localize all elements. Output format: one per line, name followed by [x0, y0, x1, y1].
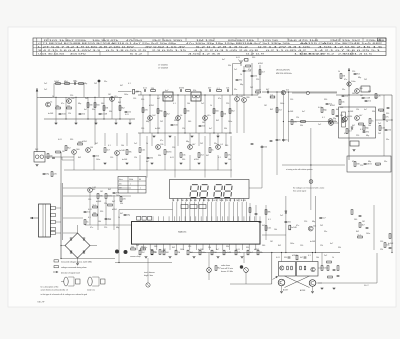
svg-text:10k: 10k [386, 245, 389, 247]
svg-text:220: 220 [356, 135, 359, 137]
capacitor C31 [363, 130, 366, 132]
thermal fuse [350, 141, 359, 146]
svg-text:150: 150 [88, 199, 91, 201]
resistor R46 [93, 214, 98, 216]
segment resistor pack 1 [181, 205, 188, 209]
svg-text:68p: 68p [368, 161, 371, 163]
svg-text:47u: 47u [160, 140, 163, 142]
resistor R53 [321, 266, 323, 271]
svg-text:560: 560 [354, 219, 357, 221]
wire drop to bus2 [93, 155, 95, 170]
svg-text:12k: 12k [356, 109, 359, 111]
svg-text:Vers: Vers [119, 179, 123, 181]
svg-text:100n: 100n [290, 243, 294, 245]
junction [75, 97, 76, 98]
svg-text:2k2: 2k2 [320, 225, 323, 227]
svg-text:220: 220 [226, 103, 229, 105]
svg-text:LW 146-290 kHz: LW 146-290 kHz [276, 70, 290, 72]
svg-text:220: 220 [304, 221, 307, 223]
svg-text:6.2 0.1 2.8 1.3 5.2: 6.2 0.1 2.8 1.3 5.2 [196, 47, 248, 49]
svg-text:39k: 39k [120, 203, 123, 205]
resistor R29 [369, 119, 371, 124]
ground mid [198, 162, 201, 164]
svg-text:33n: 33n [174, 120, 177, 122]
svg-text:bc548: bc548 [291, 227, 297, 229]
wire vm2 [243, 66, 245, 96]
svg-text:1M: 1M [177, 252, 180, 254]
svg-text:8k2: 8k2 [278, 245, 281, 247]
svg-text:0.1: 0.1 [128, 83, 131, 85]
svg-text:33n: 33n [144, 247, 147, 249]
svg-text:60: 60 [139, 179, 141, 181]
svg-text:voltages measured during alarm: voltages measured during alarm [61, 266, 87, 269]
junction [55, 97, 56, 98]
segment resistor pack 3 [199, 205, 206, 209]
transistor Q29 [347, 82, 351, 86]
svg-text:8k2: 8k2 [108, 189, 111, 191]
power box outline [339, 107, 376, 138]
svg-text:1M: 1M [270, 241, 273, 243]
svg-text:220: 220 [104, 227, 107, 229]
ground rod [36, 164, 39, 166]
svg-text:4k7: 4k7 [336, 109, 339, 111]
resistor RU11 [257, 250, 259, 255]
svg-text:39k: 39k [300, 125, 303, 127]
ground [153, 135, 156, 137]
svg-text:8k2: 8k2 [118, 102, 121, 104]
svg-text:4k7: 4k7 [157, 98, 160, 100]
resistor R67 [359, 123, 364, 125]
svg-text:direction of signal travel: direction of signal travel [61, 271, 80, 274]
svg-text:150: 150 [300, 245, 303, 247]
wire vm0 [232, 64, 234, 96]
resistor R13 [142, 108, 144, 113]
svg-text:33n: 33n [234, 89, 237, 91]
capacitor C27 [389, 246, 392, 248]
resistor RU4 [175, 250, 177, 255]
svg-text:4u7: 4u7 [84, 109, 87, 111]
svg-text:1 2 3 4 5 6 7 8 9 10 11 12 13: 1 2 3 4 5 6 7 8 9 10 11 12 13 14 [172, 200, 247, 202]
svg-text:330: 330 [386, 113, 389, 115]
right filter box [347, 156, 391, 172]
wire IF vertical [195, 95, 197, 133]
wire bottom bus left [230, 283, 272, 285]
svg-text:0.01: 0.01 [236, 249, 240, 251]
svg-text:1k: 1k [210, 105, 212, 107]
table row line [33, 40, 386, 42]
svg-text:6 1.2: 6 1.2 [130, 54, 142, 56]
wire mains vertical [348, 68, 350, 160]
capacitor C6 [179, 89, 181, 92]
wire mid vertical [151, 133, 153, 146]
junction [229, 132, 230, 133]
svg-text:/05: /05 [119, 183, 122, 185]
dial lamp LA1 [207, 268, 212, 273]
svg-text:120 56: 120 56 [262, 40, 278, 42]
svg-text:330: 330 [324, 99, 327, 101]
svg-text:bf194: bf194 [112, 209, 117, 211]
ground [75, 122, 78, 124]
svg-text:free aerial signal: free aerial signal [293, 191, 307, 193]
wire rm h1 [265, 205, 267, 240]
wire vertical drop [55, 97, 57, 119]
svg-text:the voltages are measured with: the voltages are measured with a noise [293, 187, 324, 190]
IF transformer T3 [191, 92, 201, 101]
svg-text:1k: 1k [50, 101, 52, 103]
wire resistor row [54, 83, 84, 85]
resistor R45 [93, 206, 98, 208]
svg-text:10k: 10k [121, 145, 124, 147]
svg-text:AA119 OA90 2x BC548 1n5 68: AA119 OA90 2x BC548 1n5 682 [300, 42, 382, 45]
resistor RU2 [151, 250, 153, 255]
svg-text:4k7: 4k7 [120, 85, 123, 87]
resistor R12 [217, 90, 222, 92]
svg-text:2k2: 2k2 [200, 143, 203, 145]
transistor Q17 [115, 151, 120, 156]
svg-text:0.01: 0.01 [276, 257, 280, 259]
svg-text:2.8 1.3: 2.8 1.3 [338, 54, 354, 56]
svg-text:33n: 33n [186, 111, 189, 113]
resistor R44 [105, 194, 107, 199]
input arrow [273, 277, 278, 280]
svg-text:1k: 1k [371, 121, 373, 123]
svg-text:4.55 1.2 0.6 2.15 1.6: 4.55 1.2 0.6 2.15 1.6 [318, 47, 382, 49]
ground mid [126, 162, 129, 164]
svg-text:0.1: 0.1 [173, 103, 176, 105]
varicap cluster [321, 108, 323, 113]
junction rect [60, 245, 61, 246]
resistor R22b [270, 96, 275, 98]
resistor R47b [120, 197, 122, 202]
svg-text:12k: 12k [254, 76, 257, 78]
svg-text:2n2: 2n2 [324, 255, 327, 257]
wire mr vertical [282, 92, 284, 142]
svg-text:330: 330 [252, 57, 255, 59]
svg-text:1M: 1M [360, 95, 363, 97]
wire rm cross [262, 234, 286, 236]
svg-text:220: 220 [172, 147, 175, 149]
svg-text:33n: 33n [324, 231, 327, 233]
transistor Q25 [311, 267, 315, 271]
svg-text:47u: 47u [344, 133, 347, 135]
svg-text:2M2 15k 1k2: 2M2 15k 1k2 [330, 40, 360, 42]
wire drop to bus2 [139, 155, 141, 170]
output transistor Q27 [309, 280, 316, 287]
capacitor C4b [125, 110, 128, 112]
svg-text:150: 150 [141, 128, 144, 130]
resistor R47 [84, 220, 86, 225]
capacitor C35 [337, 274, 340, 276]
resistor R30 [383, 115, 385, 120]
svg-text:8k2: 8k2 [368, 91, 371, 93]
resistor R42 [51, 172, 53, 177]
ground mid [151, 162, 154, 164]
wire lm cross [63, 195, 131, 197]
wire lm cross3 [63, 217, 83, 219]
svg-text:68p: 68p [84, 83, 87, 85]
wire mid vertical [209, 133, 211, 146]
svg-text:1M: 1M [163, 249, 166, 251]
resistor R9 [119, 106, 121, 111]
antenna top middle [240, 60, 242, 66]
svg-text:2k2: 2k2 [378, 133, 381, 135]
junction [103, 118, 104, 119]
resistor R8 [103, 106, 105, 111]
ground rectifier [76, 263, 79, 265]
wire if-to-display [230, 136, 232, 178]
wire mr vertical [288, 92, 290, 142]
svg-text:100n: 100n [374, 97, 378, 99]
transformer tap [51, 221, 56, 224]
svg-text:10k: 10k [340, 115, 343, 117]
svg-text:x: x [140, 188, 141, 190]
svg-text:0.5 1.8 0.55 2.9: 0.5 1.8 0.55 2.9 [106, 50, 146, 52]
svg-text:330: 330 [141, 99, 144, 101]
legend item arrow [53, 271, 58, 273]
transformer tap [51, 207, 56, 210]
svg-text:8k2: 8k2 [270, 109, 273, 111]
capacitor C9 [243, 69, 246, 71]
capacitor C38 [52, 156, 55, 158]
junction [94, 97, 95, 98]
svg-text:47u: 47u [344, 79, 347, 81]
legend item switch [54, 266, 59, 268]
transistor Q13 [355, 116, 360, 121]
capacitor C5 [143, 89, 145, 92]
svg-text:39k: 39k [224, 128, 227, 130]
transistor Q18 [156, 145, 161, 150]
resistor R65 [375, 94, 377, 99]
svg-text:4k7: 4k7 [262, 225, 265, 227]
mains transformer T4 [39, 204, 51, 237]
svg-text:12k: 12k [313, 225, 316, 227]
trimmer box [245, 59, 249, 62]
svg-text:560: 560 [258, 97, 261, 99]
resistor R43 [97, 194, 99, 199]
ground [217, 135, 220, 137]
svg-text:100n: 100n [96, 159, 100, 161]
svg-text:bf194: bf194 [367, 164, 373, 166]
svg-text:10k: 10k [182, 155, 185, 157]
svg-text:4u7: 4u7 [222, 59, 225, 61]
svg-text:330: 330 [246, 247, 249, 249]
svg-text:1M: 1M [62, 151, 65, 153]
resistor R60 [376, 163, 381, 165]
driver stage box A [279, 262, 296, 277]
junction [65, 118, 66, 119]
resistor R41 [225, 153, 227, 158]
wire touch drop [243, 253, 245, 264]
svg-text:100n: 100n [116, 195, 120, 197]
resistor R77 [133, 89, 135, 94]
svg-text:39k: 39k [128, 152, 131, 154]
ground [191, 135, 194, 137]
svg-text:33n: 33n [342, 89, 345, 91]
svg-text:10k: 10k [368, 125, 371, 127]
wire rect left [61, 245, 65, 247]
wire rod to bus [45, 156, 74, 158]
wire drop to bus2 [73, 155, 75, 170]
svg-text:bc548: bc548 [48, 113, 53, 115]
svg-text:560: 560 [225, 145, 228, 147]
transistor Q22 [280, 266, 284, 270]
antenna lead-in [36, 88, 38, 152]
svg-text:12k: 12k [68, 113, 71, 115]
svg-text:0.01: 0.01 [58, 139, 62, 141]
junction [184, 132, 185, 133]
junction [149, 94, 150, 95]
clock IC U1 [132, 222, 261, 245]
resistor R20 [259, 70, 261, 75]
svg-text:1k: 1k [146, 143, 148, 145]
resistor R63 [384, 243, 386, 248]
clock IC bottom pins [137, 244, 256, 250]
capacitor C17 [147, 156, 150, 158]
resistor R7 [94, 103, 96, 108]
svg-text:bf194: bf194 [292, 255, 297, 257]
transistor Q12 [343, 117, 348, 122]
wire rect bottom [77, 258, 79, 263]
svg-text:0.1: 0.1 [268, 219, 271, 221]
svg-text:measured voltages approx. (wit: measured voltages approx. (with 10M) [61, 260, 92, 263]
capacitor C15 [385, 128, 388, 130]
wire antenna to amp [37, 96, 52, 98]
resistor R25 [301, 121, 306, 123]
display bottom ticks [173, 199, 243, 202]
ground mid [225, 162, 228, 164]
diode D6 [351, 127, 353, 129]
ground mid [180, 162, 183, 164]
svg-text:68p: 68p [240, 84, 243, 86]
wire row drops [53, 84, 55, 98]
resistor RU8 [223, 250, 225, 255]
svg-text:220: 220 [256, 79, 259, 81]
svg-text:10k 3k3 47k: 10k 3k3 47k [92, 40, 118, 42]
svg-text:0.01: 0.01 [318, 107, 322, 109]
svg-text:150: 150 [133, 98, 136, 100]
table row line [33, 50, 386, 52]
svg-text:1k: 1k [54, 81, 56, 83]
svg-text:bf194: bf194 [82, 141, 87, 143]
svg-text:68p: 68p [366, 135, 369, 137]
cluster caps left [251, 142, 254, 144]
resistor R24 [291, 120, 293, 125]
resistor R40 [209, 148, 211, 153]
wire mid vertical [177, 133, 179, 146]
wire IF vertical [221, 95, 223, 133]
wire vertical drop [103, 97, 105, 119]
svg-text:bc548: bc548 [198, 249, 203, 251]
table label column [36, 38, 38, 56]
transistor Q15 [72, 150, 77, 155]
resistor RA1 [287, 266, 289, 270]
svg-text:330: 330 [70, 139, 73, 141]
wire IF vertical [213, 95, 215, 133]
display pin header [173, 202, 247, 222]
svg-text:bc548: bc548 [348, 111, 353, 113]
capacitor C12b [282, 138, 285, 140]
mains arrow [30, 217, 39, 219]
svg-text:SAA1061: SAA1061 [178, 231, 187, 234]
svg-text:10k: 10k [226, 88, 229, 90]
resistor R16 [184, 109, 186, 114]
output transistor Q26 [278, 279, 285, 286]
svg-text:560: 560 [92, 189, 95, 191]
transistor Q7 [203, 116, 208, 121]
svg-text:100n: 100n [180, 249, 184, 251]
svg-text:0.1: 0.1 [108, 145, 111, 147]
wire IF vertical [149, 95, 151, 133]
wire mr h165 [282, 164, 345, 166]
svg-text:1M: 1M [362, 221, 365, 223]
svg-text:330: 330 [100, 211, 103, 213]
transformer tap [51, 228, 56, 231]
svg-text:bf194: bf194 [149, 105, 154, 107]
capacitor drawing 1 [64, 277, 68, 286]
wire bend to mr bus [257, 92, 259, 95]
resistor R11 [186, 90, 191, 92]
svg-text:47u: 47u [64, 81, 67, 83]
svg-text:1k: 1k [52, 96, 54, 98]
transistor Q1 [67, 99, 72, 104]
wire drop to bus2 [164, 155, 166, 170]
svg-text:100n: 100n [174, 125, 178, 127]
resistor R34 [104, 148, 106, 153]
resistor R28 [339, 100, 341, 105]
junction pr [348, 94, 349, 95]
svg-text:33n: 33n [92, 109, 95, 111]
resistor R71 [327, 261, 332, 263]
svg-text:1k: 1k [386, 121, 388, 123]
capacitor C12a [276, 138, 279, 140]
wire pr2 [376, 119, 393, 121]
connector J1 [98, 80, 101, 83]
resistor R55 [328, 276, 333, 278]
resistor R49 [141, 248, 146, 250]
svg-text:47u: 47u [90, 227, 93, 229]
svg-text:82k 8k2 18k: 82k 8k2 18k [228, 40, 254, 42]
svg-text:bc548: bc548 [365, 98, 371, 100]
svg-text:84-07: 84-07 [364, 285, 369, 287]
resistor R37 [164, 150, 166, 155]
svg-text:bc548: bc548 [122, 159, 127, 161]
display digit 1 [190, 185, 198, 198]
resistor R57 [265, 210, 267, 215]
svg-text:4k7: 4k7 [206, 155, 209, 157]
display digit 4 [224, 185, 232, 198]
resistor R54 [327, 266, 329, 271]
svg-text:33n: 33n [386, 139, 389, 141]
svg-text:100n: 100n [351, 81, 355, 83]
svg-text:0.1: 0.1 [322, 117, 325, 119]
wire mr vert pointer [310, 128, 312, 210]
svg-text:47u 100u 33p 18p 120p BB110A 4: 47u 100u 33p 18p 120p BB110A 4u7 9v1 330… [186, 42, 290, 45]
wire mid vertical [225, 133, 227, 146]
wire mid vertical [198, 133, 200, 146]
resistor R68 [379, 126, 381, 131]
svg-text:2k2: 2k2 [364, 79, 367, 81]
wire rect top [77, 225, 79, 233]
svg-text:47u: 47u [385, 117, 388, 119]
resistor R51 [159, 250, 161, 255]
wire crossover 2 [285, 276, 310, 288]
svg-text:S 4 2.15 1.6 0.4 1.05V 3.: S 4 2.15 1.6 0.4 1.05V 3.3 [38, 50, 100, 52]
wire rect right [90, 245, 97, 247]
svg-text:0.01: 0.01 [380, 111, 384, 113]
svg-text:12k: 12k [296, 117, 299, 119]
capacitor C25 [364, 162, 367, 164]
resistor RB1 [300, 266, 302, 270]
